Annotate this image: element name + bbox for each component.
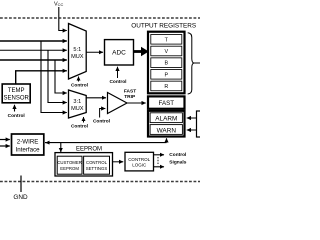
- svg-text:TRIP: TRIP: [124, 94, 136, 100]
- mux 3:1: [69, 90, 87, 118]
- wire limit block to WARN: [187, 129, 197, 131]
- wire control signal 2: [154, 166, 165, 168]
- register FAST: [148, 96, 185, 108]
- svg-text:B: B: [164, 61, 168, 67]
- wire limit block to ALARM: [187, 117, 197, 119]
- wire bus arrow into register stack: [166, 138, 168, 142]
- svg-text:Control: Control: [93, 119, 110, 125]
- register bank T V B P R: [148, 32, 185, 94]
- wire input line 2: [0, 49, 67, 51]
- register R: [151, 81, 182, 91]
- svg-text:SETTINGS: SETTINGS: [86, 166, 108, 171]
- wire control signal 1: [154, 154, 165, 156]
- svg-text:FAST: FAST: [124, 89, 136, 95]
- svg-text:CONTROL: CONTROL: [86, 160, 108, 165]
- interface 2-wire block: [12, 134, 44, 155]
- svg-text:Signals: Signals: [169, 160, 186, 166]
- wire tap line1 to 3:1 mux input 3: [41, 41, 67, 113]
- wire bus arrow into EEPROM: [60, 143, 62, 152]
- control settings block: [84, 156, 110, 174]
- svg-text:R: R: [164, 84, 168, 90]
- register bank ALARM WARN: [148, 111, 185, 137]
- svg-text:V: V: [164, 49, 168, 55]
- register P: [151, 70, 182, 80]
- EEPROM block: [55, 146, 113, 176]
- svg-text:VCC: VCC: [54, 1, 63, 7]
- svg-text:ALARM: ALARM: [155, 116, 177, 123]
- svg-text:TEMP: TEMP: [8, 88, 25, 94]
- wire input line 3: [0, 59, 67, 61]
- wire bus arrow into 2-wire interface: [46, 142, 51, 144]
- svg-text:MUX: MUX: [71, 106, 84, 112]
- svg-text:2-WIRE: 2-WIRE: [17, 139, 39, 146]
- customer eeprom block: [57, 156, 82, 174]
- control arrow temp sensor: [14, 105, 16, 112]
- control logic block: [125, 152, 154, 171]
- wire temp sensor to 5:1 mux input 5: [16, 71, 67, 84]
- wire input line 1: [0, 40, 67, 42]
- control arrow 5:1 mux: [78, 77, 80, 82]
- svg-text:Control: Control: [8, 113, 25, 119]
- limit block (right edge): [197, 111, 205, 137]
- wire internal bus: [45, 142, 167, 144]
- svg-text:EEPROM: EEPROM: [76, 146, 102, 152]
- chip boundary top (dashed): [0, 17, 200, 19]
- wire 5:1 mux to ADC: [86, 51, 103, 53]
- control arrow 3:1 mux: [83, 117, 85, 123]
- comparator FAST TRIP: [108, 93, 128, 114]
- ADC block: [105, 40, 134, 65]
- svg-text:Interface: Interface: [16, 147, 41, 154]
- svg-text:Control: Control: [109, 79, 126, 85]
- svg-text:MUX: MUX: [71, 54, 84, 60]
- svg-text:3:1: 3:1: [73, 99, 81, 105]
- svg-text:EEPROM: EEPROM: [60, 166, 79, 171]
- svg-text:Control: Control: [71, 124, 88, 130]
- svg-text:WARN: WARN: [157, 127, 177, 134]
- svg-text:FAST: FAST: [159, 100, 175, 107]
- wire EEPROM to control logic: [113, 161, 124, 163]
- svg-text:Control: Control: [71, 83, 88, 89]
- register B: [151, 58, 182, 68]
- wire tap line3 to 3:1 mux input 1: [55, 60, 67, 93]
- svg-text:Control: Control: [169, 152, 186, 158]
- svg-text:OUTPUT REGISTERS: OUTPUT REGISTERS: [131, 23, 196, 30]
- wire ADC to output registers (thick): [134, 50, 142, 53]
- svg-text:CUSTOMER: CUSTOMER: [57, 160, 82, 165]
- ellipsis control signals: [157, 157, 159, 166]
- mux 5:1: [69, 24, 87, 80]
- svg-text:SENSOR: SENSOR: [4, 96, 30, 102]
- brace output registers: [188, 33, 194, 94]
- wire comparator to FAST register: [127, 102, 146, 104]
- wire Vcc to 5:1 mux input 1: [59, 7, 67, 31]
- wire serial input 2: [0, 145, 10, 147]
- svg-text:GND: GND: [13, 194, 28, 200]
- register V: [151, 46, 182, 56]
- control arrow ADC: [117, 67, 119, 78]
- register T: [151, 35, 182, 45]
- svg-text:ADC: ADC: [112, 50, 126, 57]
- wire 3:1 mux to fast trip comparator: [86, 97, 106, 99]
- register ALARM: [150, 113, 182, 123]
- register WARN: [150, 125, 182, 135]
- chip boundary bottom (dashed): [0, 181, 200, 183]
- svg-text:P: P: [164, 72, 168, 78]
- wire control to comparator: [100, 109, 106, 118]
- temp sensor block: [2, 84, 30, 103]
- wire tap line2 to 3:1 mux input 2: [48, 50, 67, 102]
- wire serial input 1: [0, 139, 10, 141]
- svg-text:CONTROL: CONTROL: [128, 157, 150, 162]
- wire brace tail: [194, 62, 200, 64]
- svg-text:LOGIC: LOGIC: [132, 163, 147, 168]
- GND pin: [20, 176, 22, 193]
- svg-text:5:1: 5:1: [73, 47, 81, 53]
